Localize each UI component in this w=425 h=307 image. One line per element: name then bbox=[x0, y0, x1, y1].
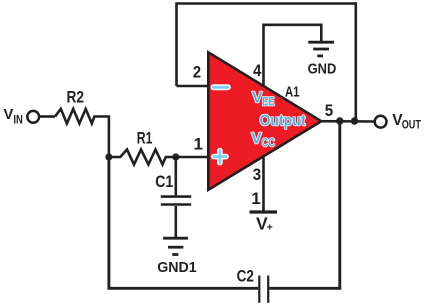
svg-text:2: 2 bbox=[193, 63, 201, 82]
svg-text:C2: C2 bbox=[237, 267, 254, 285]
svg-text:OUT: OUT bbox=[402, 119, 421, 131]
svg-text:GND: GND bbox=[308, 60, 337, 77]
svg-text:R1: R1 bbox=[137, 129, 153, 147]
svg-text:C1: C1 bbox=[155, 173, 173, 191]
svg-text:V: V bbox=[251, 131, 262, 148]
svg-text:1: 1 bbox=[194, 135, 203, 154]
svg-text:3: 3 bbox=[253, 165, 261, 184]
svg-text:1: 1 bbox=[251, 189, 260, 208]
svg-text:IN: IN bbox=[13, 114, 22, 126]
svg-text:GND1: GND1 bbox=[157, 259, 197, 276]
svg-text:V: V bbox=[4, 107, 14, 123]
svg-text:5: 5 bbox=[325, 101, 333, 120]
svg-text:CC: CC bbox=[262, 138, 275, 150]
svg-text:Output: Output bbox=[260, 112, 307, 129]
svg-text:4: 4 bbox=[253, 61, 262, 80]
svg-text:EE: EE bbox=[262, 97, 275, 109]
svg-text:+: + bbox=[267, 221, 273, 233]
svg-text:A1: A1 bbox=[285, 85, 300, 101]
svg-text:R2: R2 bbox=[67, 88, 85, 106]
